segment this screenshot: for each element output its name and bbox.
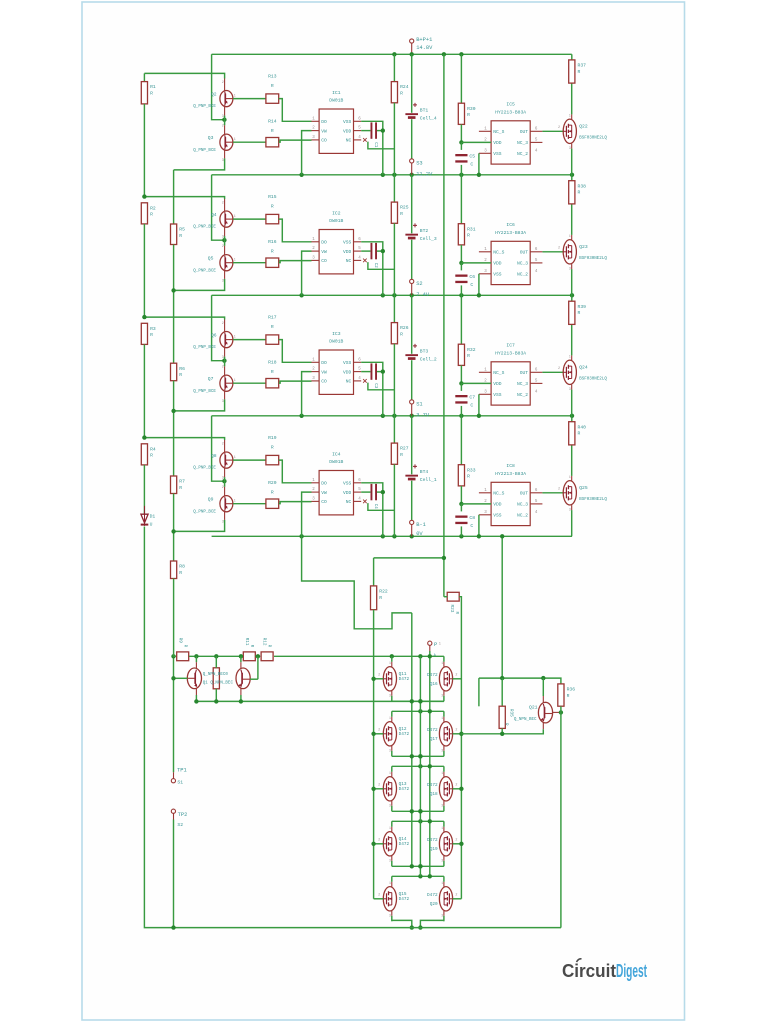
junction xyxy=(559,710,563,714)
wire xyxy=(453,898,462,900)
junction xyxy=(428,764,432,768)
resistor R9 xyxy=(177,638,189,661)
junction xyxy=(459,414,463,418)
wire xyxy=(189,655,243,657)
junction xyxy=(410,925,414,929)
svg-text:VW: VW xyxy=(321,369,327,375)
wire xyxy=(144,317,224,319)
svg-text:NC_3: NC_3 xyxy=(517,502,528,508)
svg-text:1: 1 xyxy=(439,643,441,647)
svg-text:Q22: Q22 xyxy=(579,124,588,130)
junction xyxy=(381,369,385,373)
junction xyxy=(392,293,396,297)
svg-text:R: R xyxy=(400,91,403,97)
svg-text:R: R xyxy=(150,453,153,459)
svg-text:2: 2 xyxy=(455,894,457,898)
wire xyxy=(174,677,188,679)
svg-text:CO: CO xyxy=(321,138,327,144)
wire xyxy=(143,465,145,514)
svg-text:3: 3 xyxy=(569,387,571,391)
svg-text:R19: R19 xyxy=(268,435,277,441)
svg-text:D1: D1 xyxy=(150,514,156,520)
svg-text:R: R xyxy=(400,452,403,458)
svg-text:DW01B: DW01B xyxy=(329,218,343,224)
junction xyxy=(410,534,414,538)
junction xyxy=(500,732,504,736)
svg-text:P: P xyxy=(434,642,437,648)
transistor Q10 xyxy=(236,668,250,689)
IC IC7 xyxy=(479,343,543,405)
wire xyxy=(143,104,145,197)
svg-text:DW01B: DW01B xyxy=(329,459,343,465)
wire xyxy=(212,175,224,240)
svg-text:OUT: OUT xyxy=(520,129,529,135)
battery BT4 xyxy=(405,464,436,483)
wire xyxy=(460,504,462,512)
svg-text:NC_3: NC_3 xyxy=(517,140,528,146)
svg-text:Q21: Q21 xyxy=(529,704,538,710)
svg-text:D472: D472 xyxy=(427,893,438,898)
wire xyxy=(233,218,266,220)
svg-text:Q16: Q16 xyxy=(430,682,438,687)
junction xyxy=(459,261,463,265)
svg-text:DW01B: DW01B xyxy=(329,339,343,345)
wire xyxy=(173,820,175,928)
transistor Q25 xyxy=(558,475,576,511)
wire xyxy=(443,821,445,866)
wire xyxy=(173,656,175,678)
wire xyxy=(460,383,462,391)
wire xyxy=(212,415,572,417)
svg-text:R13: R13 xyxy=(268,73,277,79)
wire xyxy=(392,755,444,757)
wire xyxy=(460,175,462,224)
resistor R22 xyxy=(371,586,388,610)
svg-text:Q_PNP_BCE: Q_PNP_BCE xyxy=(193,226,216,230)
svg-text:S1: S1 xyxy=(416,401,422,407)
resistor R23 xyxy=(447,592,459,614)
svg-text:2: 2 xyxy=(222,201,224,205)
svg-text:C4: C4 xyxy=(373,504,377,510)
wire xyxy=(374,678,384,680)
junction xyxy=(381,414,385,418)
logo CircuitDigest xyxy=(562,959,647,981)
svg-text:R: R xyxy=(467,474,470,480)
wire xyxy=(478,274,480,296)
svg-text:R26: R26 xyxy=(400,325,409,331)
wire xyxy=(377,371,383,373)
wire xyxy=(542,371,563,373)
wire xyxy=(302,536,412,629)
svg-text:D472: D472 xyxy=(399,677,410,682)
svg-text:Cell_3: Cell_3 xyxy=(420,236,437,242)
svg-text:14.8V: 14.8V xyxy=(416,45,433,51)
svg-text:R24: R24 xyxy=(400,84,409,90)
junction xyxy=(418,764,422,768)
wire xyxy=(374,843,384,845)
svg-text:R37: R37 xyxy=(578,63,587,69)
svg-text:D472: D472 xyxy=(427,783,438,788)
svg-text:B-1: B-1 xyxy=(416,522,426,528)
svg-text:2: 2 xyxy=(378,674,380,678)
transistor Q11 xyxy=(378,661,396,697)
wire xyxy=(391,821,393,866)
svg-text:R20: R20 xyxy=(268,480,277,486)
resistor R39 xyxy=(569,301,586,324)
svg-text:2: 2 xyxy=(222,486,224,490)
svg-text:VDD: VDD xyxy=(343,490,352,496)
wire xyxy=(279,460,312,483)
wire xyxy=(460,54,462,103)
wire xyxy=(361,242,383,295)
junction xyxy=(500,534,504,538)
wire xyxy=(144,527,561,928)
wire xyxy=(361,121,383,175)
wire xyxy=(443,876,445,921)
wire xyxy=(542,130,563,132)
transistor Q14 xyxy=(378,826,396,862)
svg-text:Q19: Q19 xyxy=(430,847,438,852)
svg-text:D472: D472 xyxy=(427,673,438,678)
resistor R18 xyxy=(266,360,279,388)
resistor R19 xyxy=(266,435,279,465)
transistor Q7 xyxy=(193,366,235,404)
junction xyxy=(390,654,394,658)
svg-text:C2: C2 xyxy=(373,263,377,269)
wire xyxy=(571,505,573,536)
junction xyxy=(418,809,422,813)
junction xyxy=(418,925,422,929)
svg-text:2: 2 xyxy=(378,784,380,788)
svg-text:Q_PNP_BCE: Q_PNP_BCE xyxy=(193,105,216,109)
svg-text:C: C xyxy=(470,162,473,168)
resistor R13 xyxy=(266,73,279,103)
node TP2 xyxy=(171,809,187,818)
resistor R7 xyxy=(171,476,186,494)
junction xyxy=(418,874,422,878)
wire xyxy=(368,142,395,149)
wire xyxy=(174,655,177,657)
svg-text:1: 1 xyxy=(569,475,571,479)
svg-text:BT4: BT4 xyxy=(420,469,429,475)
svg-text:NC: NC xyxy=(346,138,352,144)
junction xyxy=(459,140,463,144)
transistor Q1 xyxy=(187,668,201,689)
svg-text:D472: D472 xyxy=(399,897,410,902)
svg-text:OUT: OUT xyxy=(520,370,529,376)
svg-text:Q6: Q6 xyxy=(211,333,217,339)
capacitor C2 xyxy=(371,243,378,268)
wire xyxy=(224,227,226,254)
svg-text:3: 3 xyxy=(222,520,224,524)
junction xyxy=(418,754,422,758)
capacitor C6 xyxy=(455,274,475,288)
junction xyxy=(171,409,175,413)
wire xyxy=(212,416,224,481)
resistor R35 xyxy=(499,706,513,728)
wire xyxy=(542,251,563,253)
transistor Q21 xyxy=(538,702,552,723)
svg-text:2: 2 xyxy=(455,729,457,733)
svg-text:2: 2 xyxy=(455,839,457,843)
wire xyxy=(250,678,258,680)
junction xyxy=(222,238,226,242)
resistor R26 xyxy=(391,323,408,344)
wire xyxy=(393,464,395,536)
resistor R5 xyxy=(171,224,186,245)
wire xyxy=(212,295,224,360)
svg-text:TP1: TP1 xyxy=(177,768,187,774)
svg-text:Circuit: Circuit xyxy=(562,961,616,981)
junction xyxy=(142,194,146,198)
wire xyxy=(393,344,395,416)
svg-text:3: 3 xyxy=(389,693,391,697)
wire xyxy=(195,656,197,701)
svg-text:3: 3 xyxy=(222,356,224,360)
svg-text:R9: R9 xyxy=(177,638,182,644)
wire xyxy=(363,259,367,263)
svg-text:D472: D472 xyxy=(427,728,438,733)
svg-text:2: 2 xyxy=(222,366,224,370)
wire xyxy=(361,130,370,132)
wire xyxy=(459,597,461,899)
wire xyxy=(429,651,431,656)
resistor R16 xyxy=(266,239,279,267)
wire xyxy=(374,898,384,900)
svg-text:OUT: OUT xyxy=(520,250,529,256)
wire xyxy=(443,54,445,596)
svg-text:R: R xyxy=(400,332,403,338)
svg-text:Q25: Q25 xyxy=(579,485,588,491)
wire xyxy=(461,503,491,505)
svg-text:R: R xyxy=(179,372,182,378)
svg-text:R7: R7 xyxy=(179,479,185,485)
svg-text:3: 3 xyxy=(222,115,224,119)
resistor R10 xyxy=(213,668,219,689)
wire xyxy=(460,486,462,504)
svg-text:C: C xyxy=(470,523,473,529)
wire xyxy=(429,645,431,651)
transistor Q9 xyxy=(193,486,235,524)
junction xyxy=(299,534,303,538)
wire xyxy=(279,219,312,242)
wire xyxy=(233,339,266,341)
svg-text:1: 1 xyxy=(389,771,391,775)
svg-text:DO: DO xyxy=(321,481,327,487)
junction xyxy=(381,249,385,253)
wire xyxy=(460,406,462,416)
svg-text:HY2213-B83A: HY2213-B83A xyxy=(495,351,526,357)
junction xyxy=(459,732,463,736)
svg-text:Q8: Q8 xyxy=(211,453,217,459)
capacitor C8 xyxy=(455,515,475,529)
resistor R24 xyxy=(391,82,408,103)
junction xyxy=(570,293,574,297)
IC IC1 xyxy=(311,90,361,153)
junction xyxy=(410,52,414,56)
junction xyxy=(428,819,432,823)
wire xyxy=(393,295,395,322)
svg-text:R: R xyxy=(179,485,182,491)
svg-text:D472: D472 xyxy=(399,842,410,847)
transistor Q22 xyxy=(558,114,576,150)
capacitor C3 xyxy=(371,363,378,388)
svg-text:S1: S1 xyxy=(177,779,183,785)
svg-text:BT3: BT3 xyxy=(420,349,429,355)
svg-text:R16: R16 xyxy=(268,239,277,245)
svg-text:NC_2: NC_2 xyxy=(517,151,528,157)
svg-text:Q_PNP_BCE: Q_PNP_BCE xyxy=(193,149,216,153)
junction xyxy=(239,654,243,658)
svg-text:3: 3 xyxy=(222,236,224,240)
transistor Q15 xyxy=(378,881,396,917)
svg-text:R38: R38 xyxy=(578,183,587,189)
IC IC5 xyxy=(479,102,543,164)
wire xyxy=(274,655,444,657)
transistor Q6 xyxy=(193,322,235,360)
wire xyxy=(392,700,444,702)
svg-text:R27: R27 xyxy=(400,446,409,452)
svg-text:R: R xyxy=(271,324,274,330)
wire xyxy=(461,141,491,143)
svg-text:Q4: Q4 xyxy=(211,212,217,218)
resistor R3 xyxy=(141,323,156,344)
wire xyxy=(302,492,312,536)
wire xyxy=(233,262,266,264)
svg-text:Cell_4: Cell_4 xyxy=(420,116,437,122)
svg-text:3: 3 xyxy=(441,803,443,807)
junction xyxy=(371,732,375,736)
wire xyxy=(393,175,395,202)
wire xyxy=(411,404,413,416)
svg-text:HY2213-B83A: HY2213-B83A xyxy=(495,110,526,116)
wire xyxy=(144,438,224,440)
svg-text:VDD: VDD xyxy=(493,261,502,267)
wire xyxy=(233,98,266,100)
transistor Q13 xyxy=(378,771,396,807)
wire xyxy=(560,706,562,927)
wire xyxy=(501,678,503,706)
svg-text:1: 1 xyxy=(441,771,443,775)
wire xyxy=(411,175,413,234)
svg-text:D472: D472 xyxy=(399,732,410,737)
svg-text:Q_PNP_BCE: Q_PNP_BCE xyxy=(193,390,216,394)
capacitor C5 xyxy=(455,153,475,167)
junction xyxy=(171,676,175,680)
svg-text:R: R xyxy=(271,128,274,134)
node B+P+1 xyxy=(410,37,434,51)
wire xyxy=(233,459,266,461)
wire xyxy=(391,876,393,921)
svg-text:VSS: VSS xyxy=(343,481,352,487)
svg-text:R: R xyxy=(379,595,382,601)
svg-text:1: 1 xyxy=(389,826,391,830)
svg-text:IC8: IC8 xyxy=(506,463,515,469)
wire xyxy=(224,440,226,452)
wire xyxy=(302,131,312,175)
wire xyxy=(453,678,462,680)
svg-text:Q9: Q9 xyxy=(208,497,214,503)
svg-text:VDD: VDD xyxy=(343,249,352,255)
svg-text:VSS: VSS xyxy=(493,151,502,157)
svg-text:VSS: VSS xyxy=(493,513,502,519)
wire xyxy=(174,391,225,411)
svg-text:VDD: VDD xyxy=(343,128,352,134)
wire xyxy=(392,810,444,812)
svg-text:BT1: BT1 xyxy=(420,108,429,114)
junction xyxy=(256,654,260,658)
resistor R27 xyxy=(391,443,408,464)
svg-text:3: 3 xyxy=(222,400,224,404)
wire xyxy=(212,53,572,55)
svg-text:2: 2 xyxy=(378,839,380,843)
wire xyxy=(374,557,444,559)
wire xyxy=(478,153,480,175)
svg-text:R: R xyxy=(271,369,274,375)
svg-text:S2: S2 xyxy=(416,281,422,287)
svg-text:3: 3 xyxy=(389,748,391,752)
wire xyxy=(173,678,175,772)
wire xyxy=(392,820,444,822)
wire xyxy=(411,240,413,280)
node P xyxy=(428,641,438,648)
svg-text:BT2: BT2 xyxy=(420,228,429,234)
svg-text:Q_PNP_BCE: Q_PNP_BCE xyxy=(193,467,216,471)
wire xyxy=(143,73,145,81)
svg-text:NC_3: NC_3 xyxy=(517,381,528,387)
junction xyxy=(418,754,422,758)
wire xyxy=(542,492,563,494)
wire xyxy=(173,579,175,657)
wire xyxy=(443,711,445,756)
svg-text:R: R xyxy=(567,693,570,699)
node TP1 xyxy=(171,768,186,783)
wire xyxy=(411,284,413,296)
wire xyxy=(443,766,445,811)
wire xyxy=(411,360,413,400)
svg-text:C1: C1 xyxy=(373,142,377,148)
svg-text:DO: DO xyxy=(321,360,327,366)
wire xyxy=(279,261,312,263)
junction xyxy=(171,654,175,658)
wire xyxy=(224,320,226,332)
junction xyxy=(418,699,422,703)
svg-text:R: R xyxy=(467,112,470,118)
svg-text:2: 2 xyxy=(455,674,457,678)
wire xyxy=(460,263,462,271)
svg-text:Cell_2: Cell_2 xyxy=(420,357,437,363)
svg-text:CO: CO xyxy=(321,499,327,505)
wire xyxy=(461,262,491,264)
wire xyxy=(257,656,259,679)
wire xyxy=(392,875,444,877)
junction xyxy=(418,809,422,813)
junction xyxy=(194,654,198,658)
svg-text:S2: S2 xyxy=(177,822,183,828)
IC IC6 xyxy=(479,222,543,284)
capacitor C1 xyxy=(371,122,378,147)
wire xyxy=(391,656,393,701)
junction xyxy=(299,293,303,297)
svg-text:R8: R8 xyxy=(179,564,185,570)
svg-text:NC: NC xyxy=(346,379,352,385)
wire xyxy=(144,73,224,78)
wire xyxy=(571,264,573,295)
page border frame xyxy=(82,2,685,1020)
svg-text:1: 1 xyxy=(569,234,571,238)
svg-text:Q3: Q3 xyxy=(208,135,214,141)
wire xyxy=(361,491,370,493)
